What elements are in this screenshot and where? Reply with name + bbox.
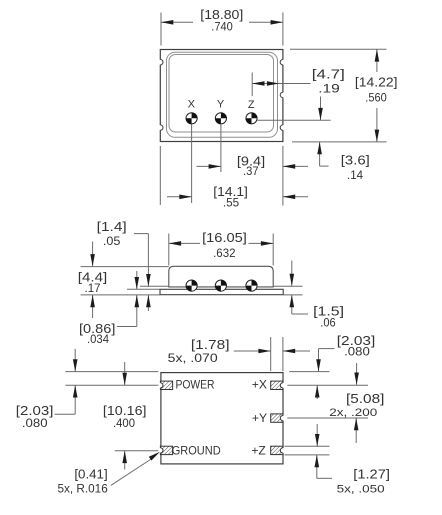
svg-text:.19: .19 bbox=[318, 81, 340, 95]
dim [16.05] right arrowhead bbox=[261, 241, 273, 246]
dim [18.80] right extension line bbox=[282, 13, 284, 46]
svg-text:[0.41]: [0.41] bbox=[74, 467, 107, 482]
top view left edge extension line down bbox=[159, 146, 161, 205]
svg-text:.560: .560 bbox=[365, 90, 387, 104]
svg-text:.740: .740 bbox=[211, 20, 233, 34]
pad POWER (hatched) bbox=[160, 381, 172, 389]
dim [2.03] left up arrowhead bbox=[73, 385, 78, 397]
svg-text:X: X bbox=[188, 99, 196, 111]
svg-text:+Y: +Y bbox=[252, 411, 267, 425]
dim [9.4] arrowhead at Y line bbox=[209, 164, 221, 169]
dim [2.03] left down arrowhead bbox=[73, 359, 78, 371]
dim [9.4] arrowhead at right edge bbox=[283, 164, 295, 169]
dim [4.4] down arrowhead bbox=[90, 254, 95, 266]
dim [5.08] up arrowhead bbox=[354, 418, 359, 430]
dim [3.6] up arrow tail bbox=[319, 142, 321, 166]
dim [2.03] left down arrow tail bbox=[74, 349, 76, 372]
svg-text:[3.6]: [3.6] bbox=[341, 153, 370, 168]
dim [1.27] up arrow tail bbox=[316, 455, 318, 478]
pin Z (top view) bbox=[246, 113, 257, 124]
dim [2.03] right leader foot bbox=[319, 348, 335, 350]
side view: base plate outline bbox=[160, 289, 283, 294]
dim [14.1] arrowhead at right edge bbox=[283, 195, 295, 200]
dim [1.5] down arrowhead bbox=[290, 274, 295, 286]
side view pin Y bump bbox=[215, 280, 226, 291]
dim [5.08] down arrow tail bbox=[356, 363, 358, 385]
pad +Y (hatched) bbox=[271, 414, 283, 422]
pad +Z (hatched) bbox=[271, 446, 283, 454]
dim [3.6] leader foot bbox=[320, 165, 329, 167]
dim [10.16] up arrow tail bbox=[124, 451, 126, 470]
top view: castellation notch left upper (POWER) bbox=[159, 60, 161, 65]
pin Y extension line down bbox=[220, 124, 222, 172]
svg-text:2x, .200: 2x, .200 bbox=[329, 407, 377, 419]
dim [0.86] up arrow tail / leader vertical bbox=[136, 295, 138, 327]
bottom view: package outline bbox=[161, 373, 283, 464]
dim [16.05] right extension line bbox=[272, 234, 274, 266]
dim [1.27] down arrow tail bbox=[316, 424, 318, 446]
pad POWER center extension left bbox=[65, 384, 158, 386]
svg-text:Y: Y bbox=[217, 99, 225, 111]
dim [5.08] down arrowhead bbox=[354, 373, 359, 385]
dim [18.80] dimension line right segment bbox=[249, 21, 283, 23]
pin Z leader line up bbox=[251, 73, 253, 97]
dim [2.03] right up arrow tail bbox=[316, 385, 318, 399]
dim [0.86] leader horizontal bbox=[117, 326, 137, 328]
svg-text:.034: .034 bbox=[87, 332, 109, 346]
svg-text:POWER: POWER bbox=[175, 378, 214, 392]
dim [14.22] top extension line bbox=[290, 48, 387, 50]
svg-text:5x, .070: 5x, .070 bbox=[168, 351, 218, 365]
dim [10.16] down arrow tail bbox=[124, 362, 126, 385]
dim [14.22] down arrowhead bbox=[375, 130, 380, 142]
dim [1.78] arrowhead left-pointing bbox=[283, 349, 295, 354]
dim [1.5] leader foot bbox=[292, 313, 308, 315]
dim [2.03] right up arrowhead bbox=[315, 385, 320, 397]
dim [14.1] right segment bbox=[283, 196, 308, 198]
svg-text:.55: .55 bbox=[223, 195, 240, 209]
dim [16.05] dimension line right segment bbox=[249, 242, 274, 244]
svg-text:Z: Z bbox=[248, 99, 255, 111]
side view base bottom (line C) extension right bbox=[283, 294, 302, 296]
dim [2.03] left leader foot bbox=[55, 413, 76, 415]
svg-text:[16.05]: [16.05] bbox=[202, 230, 247, 245]
pin X extension line down bbox=[191, 124, 193, 203]
dim [14.1] arrowhead at X line bbox=[179, 195, 191, 200]
dim [9.4] right segment bbox=[283, 165, 308, 167]
dim [4.7] dimension line bbox=[252, 83, 310, 85]
svg-text:.17: .17 bbox=[85, 281, 101, 295]
dim [1.78] arrowhead right-pointing bbox=[258, 349, 270, 354]
svg-text:[1.78]: [1.78] bbox=[191, 337, 230, 352]
pad +X (hatched) bbox=[271, 381, 283, 389]
dim [4.7] left arrowhead bbox=[252, 81, 264, 86]
svg-text:[1.27]: [1.27] bbox=[353, 467, 390, 482]
dim [14.22] bottom extension line bbox=[292, 141, 387, 143]
svg-text:+Z: +Z bbox=[251, 443, 266, 457]
dim [16.05] left extension line bbox=[168, 234, 170, 266]
side view pin Z bump bbox=[246, 280, 257, 291]
pad +Z top extension right bbox=[285, 445, 330, 447]
top view: lid seam outer rounded rect bbox=[167, 52, 278, 137]
svg-text:.05: .05 bbox=[103, 234, 121, 248]
dim [1.78] dimension line left bbox=[234, 350, 271, 352]
svg-text:.080: .080 bbox=[22, 416, 48, 430]
dim [2.03] left up arrow tail bbox=[74, 385, 76, 414]
side view lid bottom (line A) extension right bbox=[273, 285, 302, 287]
dim [16.05] left arrowhead bbox=[169, 241, 181, 246]
dim [1.4] leader horizontal bbox=[134, 233, 148, 235]
dim [2.03] right down arrow tail bbox=[318, 349, 320, 372]
dim [16.05] dimension line left segment bbox=[169, 242, 200, 244]
dim [5.08] up arrow tail bbox=[355, 418, 357, 443]
dim [0.86] down arrow tail bbox=[136, 271, 138, 289]
dim [1.4] leader vertical / down arrow tail bbox=[147, 234, 149, 287]
top view right edge extension line down bbox=[282, 146, 284, 206]
svg-text:5x, .050: 5x, .050 bbox=[337, 483, 385, 495]
top view: castellation notch left lower (GROUND) bbox=[159, 125, 161, 130]
dim [1.78] dimension line right bbox=[283, 350, 310, 352]
dim [1.27] up arrowhead bbox=[315, 455, 320, 467]
dim [4.4] down arrow tail bbox=[92, 242, 94, 267]
dim [1.27] down arrowhead bbox=[315, 434, 320, 446]
svg-text:+X: +X bbox=[252, 378, 267, 392]
dim [9.4] left segment bbox=[197, 165, 221, 167]
pad +Z bottom extension right bbox=[285, 454, 330, 456]
dim [14.1] left segment bbox=[167, 196, 192, 198]
dim [4.4] up arrow tail bbox=[92, 295, 94, 318]
svg-text:.400: .400 bbox=[113, 416, 135, 430]
dim [14.22] dimension line upper segment bbox=[376, 49, 378, 72]
dim [0.86] down arrowhead bbox=[135, 277, 140, 289]
dim [4.4] up arrowhead bbox=[90, 295, 95, 307]
svg-text:GROUND: GROUND bbox=[172, 443, 221, 457]
side view lid top extension line left bbox=[81, 266, 169, 268]
pad GROUND center extension left bbox=[115, 450, 159, 452]
svg-text:[5.08]: [5.08] bbox=[346, 391, 384, 406]
dim [18.80] dimension line left segment bbox=[161, 21, 193, 23]
pad +Y center extension right bbox=[287, 417, 368, 419]
svg-text:.632: .632 bbox=[213, 246, 236, 260]
dim [1.5] up arrowhead bbox=[290, 295, 295, 307]
side view base bottom extension line left bbox=[81, 294, 160, 296]
dim [3.6] up arrowhead bbox=[317, 142, 322, 154]
dim [0.41] leader line bbox=[111, 459, 152, 486]
side view base top (line B) extension left bbox=[127, 288, 160, 290]
pin X (top view) bbox=[186, 113, 197, 124]
dim [0.41] leader arrowhead bbox=[149, 452, 160, 461]
side view lid bottom (line A) extension left bbox=[140, 285, 169, 287]
dim [1.78] right extension line bbox=[282, 337, 284, 371]
bottom view rect-top extension left bbox=[65, 371, 158, 373]
dim [1.4] down arrowhead bbox=[146, 274, 151, 286]
dim [3.6] down arrowhead bbox=[318, 108, 323, 120]
pad GROUND (hatched) bbox=[160, 446, 172, 454]
dim [1.27] leader foot bbox=[317, 477, 332, 479]
svg-text:.080: .080 bbox=[344, 344, 370, 358]
dim [18.80] left arrowhead bbox=[161, 20, 173, 25]
pin Y (top view) bbox=[215, 113, 226, 124]
top view: castellation notch right lower (+Z) bbox=[282, 125, 284, 130]
dim [0.86] up arrowhead bbox=[135, 295, 140, 307]
dim [18.80] right arrowhead bbox=[271, 20, 283, 25]
top view: package body outline bbox=[160, 50, 283, 142]
dim [14.22] dimension line lower segment bbox=[376, 108, 378, 142]
top view: castellation notch right middle (+Y) bbox=[282, 92, 284, 97]
pin row reference line right of Z bbox=[257, 119, 330, 121]
dim [18.80] left extension line bbox=[160, 13, 162, 46]
bottom view rect-top extension right bbox=[289, 371, 329, 373]
top view: lid seam inner rounded rect bbox=[169, 55, 274, 133]
dim [1.78] left extension line bbox=[270, 337, 272, 371]
dim [1.4] up arrow tail bbox=[147, 295, 149, 311]
dim [1.5] down arrow tail bbox=[291, 261, 293, 287]
dim [1.5] up arrow tail bbox=[291, 295, 293, 314]
svg-text:[1.4]: [1.4] bbox=[97, 219, 127, 234]
svg-text:[14.22]: [14.22] bbox=[355, 75, 398, 90]
dim [2.03] right down arrowhead bbox=[316, 359, 321, 371]
svg-text:[4.7]: [4.7] bbox=[312, 67, 345, 82]
pad +X center extension right bbox=[287, 384, 368, 386]
top view: castellation notch right upper (+X) bbox=[282, 60, 284, 65]
dim [10.16] up arrowhead bbox=[122, 451, 127, 463]
dim [10.16] down arrowhead bbox=[122, 373, 127, 385]
dim [1.4] up arrowhead bbox=[146, 295, 151, 307]
svg-text:.06: .06 bbox=[320, 315, 336, 329]
side view: lid outline bbox=[169, 266, 273, 287]
dim [14.22] up arrowhead bbox=[375, 49, 380, 61]
svg-text:5x, R.016: 5x, R.016 bbox=[57, 481, 108, 495]
dim [3.6] down arrow tail bbox=[320, 97, 322, 121]
side view pin X bump bbox=[186, 280, 197, 291]
dim [4.7] right arrowhead bbox=[267, 81, 279, 86]
svg-text:.14: .14 bbox=[347, 168, 363, 182]
svg-text:.37: .37 bbox=[243, 164, 259, 178]
